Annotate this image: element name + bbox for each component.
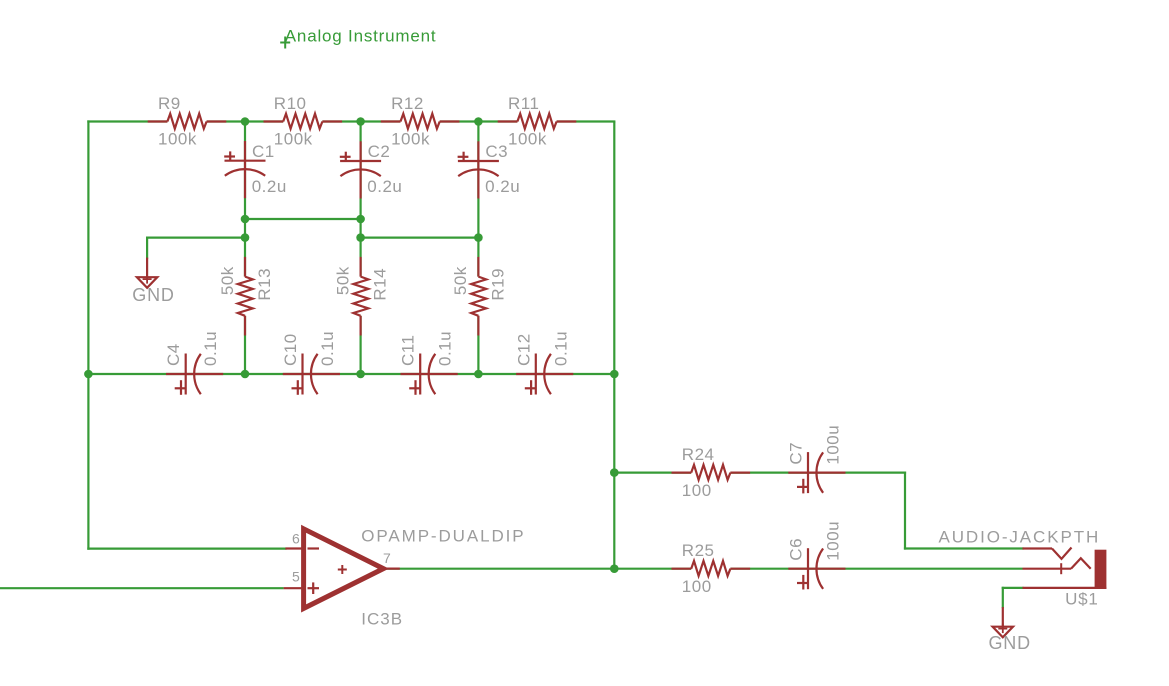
svg-text:GND: GND: [989, 633, 1031, 653]
svg-text:C4: C4: [164, 343, 183, 366]
svg-text:100: 100: [682, 481, 712, 500]
svg-text:R11: R11: [508, 94, 539, 113]
svg-text:0.2u: 0.2u: [252, 177, 287, 196]
svg-text:50k: 50k: [451, 266, 470, 295]
svg-text:6: 6: [292, 531, 300, 547]
svg-text:0.2u: 0.2u: [367, 177, 402, 196]
svg-text:R14: R14: [371, 268, 390, 301]
svg-text:R9: R9: [158, 94, 181, 113]
svg-text:0.1u: 0.1u: [551, 331, 570, 366]
svg-text:100: 100: [682, 577, 712, 596]
svg-text:OPAMP-DUALDIP: OPAMP-DUALDIP: [361, 526, 525, 545]
svg-text:R12: R12: [391, 94, 424, 113]
svg-text:0.1u: 0.1u: [201, 331, 220, 366]
svg-text:0.1u: 0.1u: [436, 331, 455, 366]
svg-text:50k: 50k: [333, 266, 352, 295]
svg-text:0.2u: 0.2u: [485, 177, 520, 196]
svg-text:R24: R24: [682, 445, 715, 464]
svg-text:50k: 50k: [218, 266, 237, 295]
svg-text:C1: C1: [252, 142, 275, 161]
svg-text:R25: R25: [682, 541, 715, 560]
svg-text:100u: 100u: [824, 521, 843, 561]
svg-text:GND: GND: [132, 285, 174, 305]
svg-text:0.1u: 0.1u: [318, 331, 337, 366]
svg-text:IC3B: IC3B: [361, 610, 403, 629]
svg-text:R10: R10: [274, 94, 307, 113]
svg-text:R19: R19: [488, 268, 507, 301]
svg-text:U$1: U$1: [1065, 590, 1099, 609]
svg-text:C7: C7: [787, 442, 806, 465]
svg-text:C10: C10: [281, 333, 300, 366]
svg-text:100k: 100k: [391, 130, 430, 149]
svg-text:7: 7: [383, 550, 391, 566]
svg-text:C12: C12: [514, 333, 533, 366]
svg-text:C3: C3: [485, 142, 508, 161]
svg-text:AUDIO-JACKPTH: AUDIO-JACKPTH: [939, 528, 1101, 547]
svg-text:5: 5: [292, 569, 300, 585]
svg-text:100k: 100k: [508, 130, 547, 149]
svg-text:100k: 100k: [274, 130, 313, 149]
svg-text:100u: 100u: [824, 425, 843, 465]
svg-text:C11: C11: [399, 335, 418, 366]
svg-text:C2: C2: [368, 142, 391, 161]
svg-text:R13: R13: [255, 268, 274, 301]
svg-text:Analog Instrument: Analog Instrument: [285, 27, 437, 46]
svg-text:C6: C6: [787, 538, 806, 561]
svg-text:100k: 100k: [158, 130, 197, 149]
